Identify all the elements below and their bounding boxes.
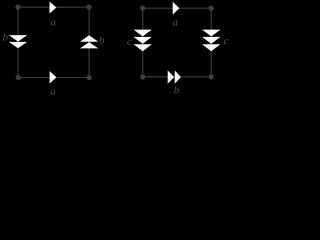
node right-square top-right xyxy=(209,6,214,11)
arrowhead b left-square left edge (double down-pointing triangles) xyxy=(9,35,27,48)
svg-text:c: c xyxy=(224,35,229,47)
node left-square bottom-right xyxy=(87,75,92,80)
arrowhead a left-square bottom edge (single right-pointing triangle) xyxy=(50,71,57,84)
arrowhead a left-square top edge (single right-pointing triangle) xyxy=(50,2,57,14)
wire right-square top edge xyxy=(143,7,212,9)
node right-square bottom-right xyxy=(209,74,214,79)
svg-text:a: a xyxy=(172,16,178,28)
svg-text:a: a xyxy=(50,85,56,97)
svg-text:c: c xyxy=(127,36,132,48)
arrowhead b left-square right edge (double up-pointing triangles) xyxy=(80,35,98,48)
svg-text:b: b xyxy=(2,32,8,44)
wire right-square bottom edge xyxy=(143,76,212,78)
wire right-square left edge xyxy=(142,8,144,77)
wire left-square right edge xyxy=(88,7,90,77)
node left-square top-left xyxy=(15,5,20,10)
node right-square bottom-left xyxy=(140,74,145,79)
arrowhead c right-square right edge (triple down-pointing triangles) xyxy=(202,30,220,52)
svg-text:b: b xyxy=(174,85,180,97)
wire left-square bottom edge xyxy=(18,77,89,79)
arrowhead b right-square bottom edge (double right-pointing triangles) xyxy=(168,70,181,83)
svg-text:a: a xyxy=(50,16,56,28)
node right-square top-left xyxy=(140,6,145,11)
arrowhead c right-square left edge (triple down-pointing triangles) xyxy=(134,30,152,52)
wire left-square top edge xyxy=(18,6,89,8)
svg-text:b: b xyxy=(99,35,105,47)
node left-square top-right xyxy=(87,5,92,10)
arrowhead a right-square top edge (single right-pointing triangle) xyxy=(173,2,180,15)
wire right-square right edge xyxy=(210,8,212,77)
node left-square bottom-left xyxy=(16,75,21,80)
wire left-square left edge xyxy=(17,7,19,77)
